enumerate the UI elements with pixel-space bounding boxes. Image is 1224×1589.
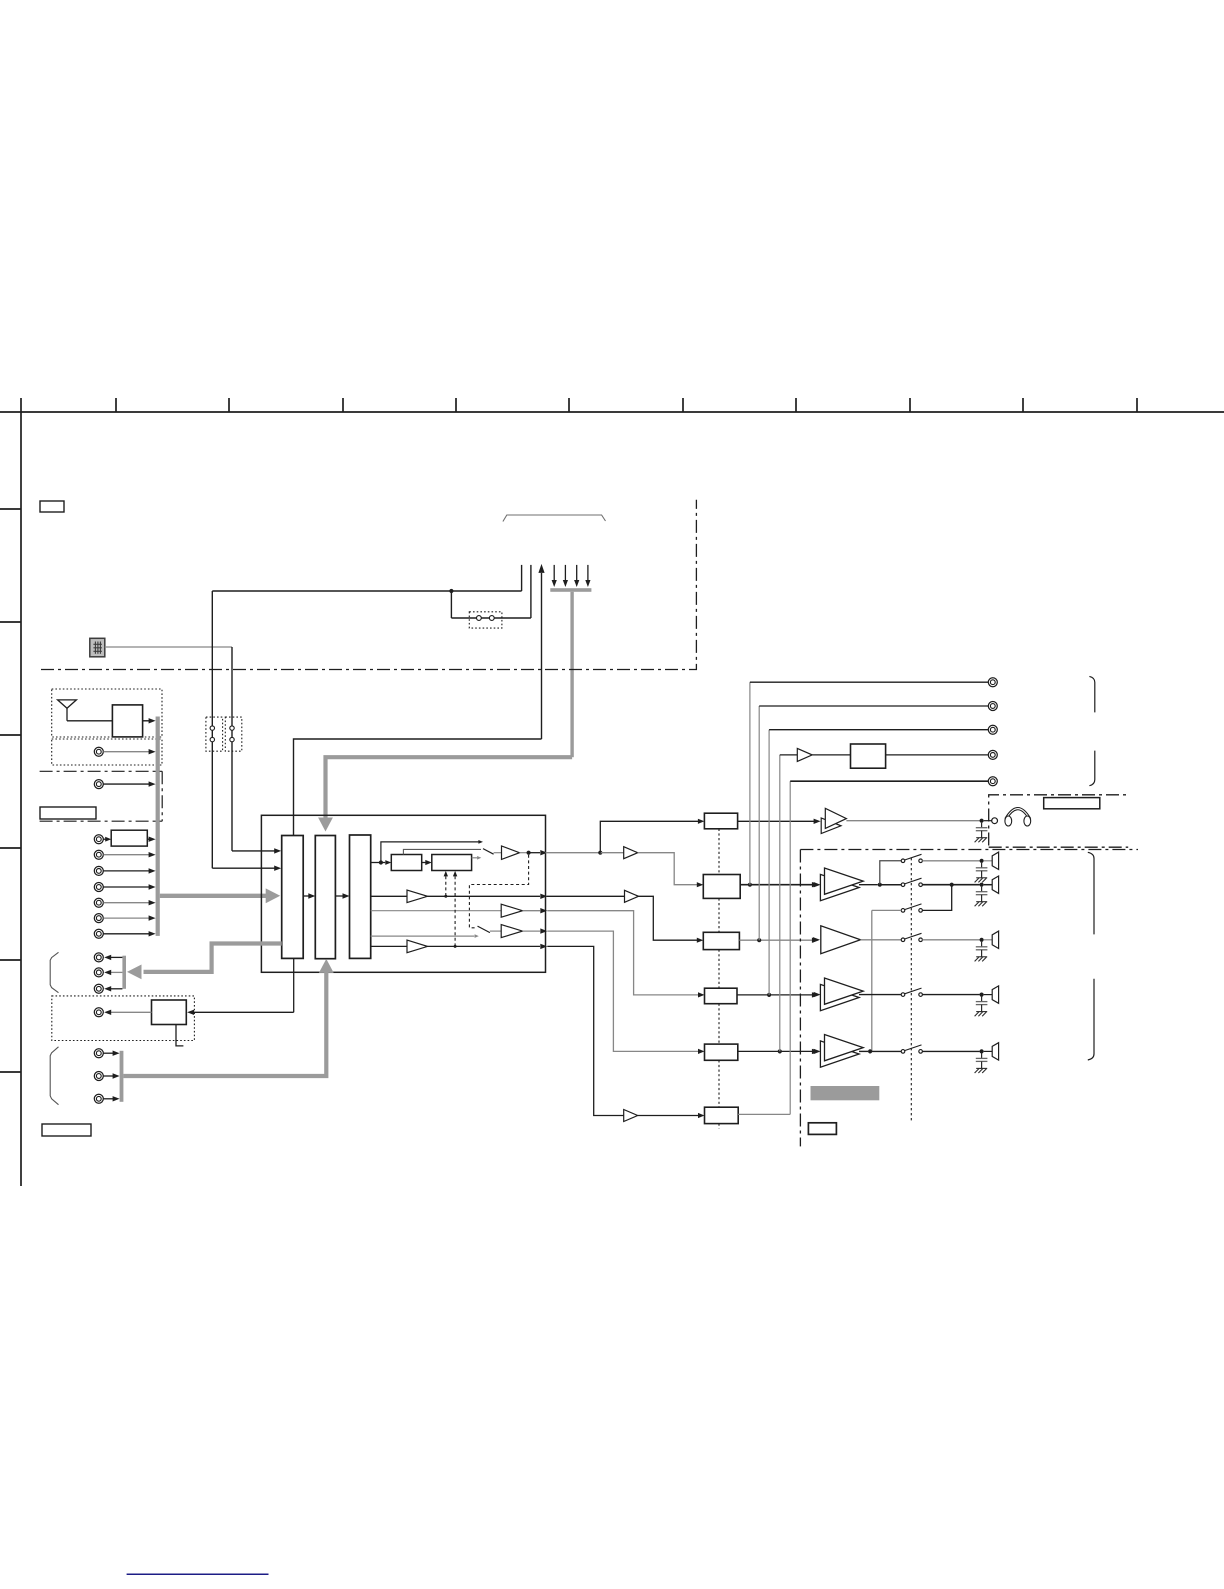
wire digital riser 2: [530, 565, 532, 618]
speaker switch F: [901, 1045, 922, 1053]
riser line-out 1: [749, 682, 751, 885]
speaker switch C: [901, 904, 922, 912]
label box (top left): [40, 501, 64, 512]
label box bottom left: [42, 1124, 91, 1136]
wire node to filter1: [600, 819, 704, 853]
wire tuner to bus: [143, 718, 156, 723]
wire amp center to switch: [861, 939, 902, 941]
wire net C: [922, 885, 951, 911]
wire rect1-top net: [294, 739, 542, 836]
eq2 out stub: [472, 856, 482, 860]
rec switch box B: [225, 717, 242, 751]
brace rec group: [50, 952, 58, 992]
phono zone dash-dot box: [40, 771, 163, 821]
arrow eq1-eq2: [422, 860, 432, 865]
wire row5: [371, 945, 407, 947]
bracket hat (digital group): [503, 515, 606, 522]
digital input down-arrows: [552, 565, 591, 587]
brace aux group: [50, 1047, 58, 1105]
rec-out bus bar: [122, 956, 126, 989]
wire switch row y618: [451, 617, 531, 619]
eq box 1: [391, 855, 421, 871]
wire filter3 out: [739, 938, 819, 943]
bracket speaker group: [1088, 852, 1094, 1060]
wire coax horizontal y591: [212, 590, 521, 592]
headphone icon: [1005, 808, 1031, 827]
wire row2: [371, 895, 407, 897]
amp row2 small: [407, 890, 428, 903]
wire filter1 to hp amp: [738, 819, 821, 824]
tuner box: [112, 705, 142, 737]
amp row5 out: [624, 1110, 638, 1122]
bracket line-out group: [1089, 676, 1094, 785]
DSP stage 2: [315, 836, 335, 959]
filter box 6: [705, 1107, 739, 1123]
wire switch B to speaker: [922, 883, 992, 887]
wire row1 to filter2: [638, 853, 704, 888]
wire net A to switch: [880, 861, 901, 885]
wire row3: [371, 910, 502, 912]
wire sub filter to jack: [886, 754, 989, 756]
capacitor + ground spk A: [975, 863, 988, 883]
RCA jacks line out: [988, 678, 997, 786]
filter box 1: [704, 813, 737, 829]
arrow stage2-stage3: [335, 893, 349, 898]
tuner dotted box: [52, 689, 162, 737]
wire lever to amp4: [490, 930, 501, 932]
wire line-out 3: [769, 729, 988, 731]
amp row4 small: [501, 925, 522, 938]
node amp out A: [859, 883, 882, 887]
riser line-out 3: [768, 730, 770, 995]
wire net A vertical: [212, 591, 281, 871]
dashed fb row2: [444, 871, 448, 898]
amp front L: [814, 978, 864, 1011]
speaker switch E: [901, 988, 922, 996]
DSP stage 1: [282, 836, 304, 959]
input selector bus (grey): [156, 717, 160, 936]
grey selector-out arrow to DSP: [160, 888, 280, 903]
speaker surround L: [992, 852, 998, 869]
wire digital riser 1: [521, 565, 523, 591]
antenna: [58, 700, 113, 721]
wire filter2 out: [740, 882, 819, 887]
aux bus bar: [120, 1051, 124, 1102]
speaker surround R: [992, 876, 998, 893]
row4 exit arrow: [523, 928, 548, 933]
dashed control path: [469, 855, 528, 928]
eq box 2: [432, 855, 472, 871]
optical switch contacts: [477, 616, 495, 621]
wire amp front L to switch: [859, 994, 901, 996]
amp subwoofer out: [797, 748, 812, 761]
selector lever row1: [483, 849, 494, 855]
DSP outer box: [261, 815, 545, 972]
rec switch box A: [206, 717, 223, 751]
headphone zone dash-dot: [989, 795, 1128, 847]
remote sensor: [90, 638, 105, 657]
wire row4 to filter5: [547, 931, 704, 1054]
label box (left): [40, 807, 96, 819]
control box stub: [176, 1025, 183, 1046]
RCA jacks aux in: [94, 1049, 119, 1104]
wire net B to switch: [880, 884, 901, 886]
speaker switch A: [901, 854, 922, 862]
RCA jack phono: [94, 780, 155, 789]
RCA jack in1 + head-amp box: [94, 830, 155, 846]
zone boundary dash-dot (digital): [41, 500, 696, 670]
riser line-out 5: [789, 781, 791, 1114]
row1 exit arrow: [529, 850, 548, 855]
wire row2 to filter3: [547, 896, 704, 943]
wire line-out 1: [750, 681, 988, 683]
amp row3 small: [501, 904, 522, 917]
speaker switch D: [901, 933, 922, 941]
wire switch D to speaker: [922, 938, 992, 942]
control dotted box: [52, 996, 195, 1041]
wire row5 to filter6: [547, 946, 623, 1115]
amp front R: [814, 1035, 864, 1068]
label box speaker zone: [808, 1123, 836, 1135]
wire row3 to filter4: [547, 911, 704, 998]
filter box 2: [703, 875, 740, 899]
capacitor + ground spk D: [975, 942, 988, 962]
bypass wire mid: [403, 849, 481, 854]
grey label bar: [811, 1086, 880, 1100]
row2 exit arrow: [428, 894, 548, 899]
wire line-out 5: [790, 780, 988, 782]
dotted speaker relay line: [910, 858, 912, 1121]
tuner audio dotted box: [52, 739, 162, 765]
page border top rule with ticks: [0, 398, 1224, 412]
wire switch E to speaker: [922, 993, 992, 997]
wire stage3 to eq: [371, 860, 392, 865]
wire filter4 out: [737, 992, 819, 997]
wire filter5 out: [738, 1049, 819, 1054]
amp center: [813, 926, 861, 954]
amp headphone: [821, 808, 846, 833]
wire digital out up-arrow: [538, 564, 544, 739]
wire switch A to speaker: [922, 859, 992, 863]
DIR bus grey tee: [550, 588, 591, 757]
wire sensor to net B: [105, 646, 232, 648]
riser line-out 2: [758, 706, 760, 940]
wire control to DSP: [187, 958, 294, 1015]
wire lever to amp1: [494, 852, 502, 854]
DSP stage 3: [350, 835, 371, 958]
arrow stage1-stage2: [303, 893, 315, 898]
row5 exit arrow: [428, 944, 548, 949]
wire row1 to node: [546, 851, 624, 855]
label box headphone: [1044, 798, 1100, 809]
rec switch contacts B: [230, 726, 234, 742]
speaker center: [992, 931, 998, 948]
riser line-out 4: [779, 755, 781, 1052]
selector lever row4: [478, 926, 490, 933]
wire line-out 2: [759, 705, 988, 707]
capacitor + ground spk F: [975, 1053, 988, 1073]
speaker switch B: [901, 878, 922, 886]
amp main L small: [502, 846, 520, 859]
capacitor + ground spk E: [975, 997, 988, 1017]
wire net B vertical: [232, 647, 281, 854]
optical switch box: [469, 612, 502, 628]
subwoofer filter box: [851, 744, 886, 768]
footer rule (navy): [127, 1573, 269, 1575]
wire stage3 row4 alt: [371, 934, 479, 938]
grey aux wire to DSP: [123, 959, 333, 1076]
node coax junction: [449, 589, 453, 593]
rec switch contacts A: [210, 726, 214, 742]
dotted chain filter boxes: [718, 829, 720, 1129]
page border left rule with ticks: [0, 412, 21, 1186]
RCA jacks rec out: [94, 953, 122, 993]
wire amp to sub filter: [812, 754, 850, 756]
wire filter6 out: [738, 1113, 790, 1115]
amp row5 small: [407, 940, 428, 953]
wire switch C to amp4 riser: [872, 910, 901, 1051]
filter box 4: [705, 988, 738, 1004]
grey rec-out wire: [127, 944, 282, 980]
wire amp to filter6: [638, 1113, 705, 1118]
speaker zone dash-dot: [800, 850, 1138, 1147]
amp row2 out: [625, 890, 639, 902]
grey wire tee to DSP: [318, 757, 572, 831]
wire amp1 to node: [520, 851, 531, 855]
dashed fb row5: [453, 871, 457, 948]
speaker front L: [992, 986, 998, 1003]
capacitor + ground hp: [975, 823, 988, 843]
wire hp amp to jack: [846, 818, 997, 824]
wire coax drop to switch: [450, 591, 452, 618]
RCA jack tuner audio: [94, 747, 155, 756]
amp row1 out: [624, 847, 638, 859]
filter box 3: [703, 932, 739, 949]
speaker front R: [992, 1043, 998, 1060]
bypass wire top: [381, 840, 483, 863]
control box: [152, 1000, 187, 1025]
wire riser4 to sub amp: [780, 754, 798, 756]
filter box 5: [705, 1044, 738, 1060]
row3 exit arrow: [523, 908, 548, 913]
RCA jacks inputs 2-7: [94, 850, 155, 938]
node amp front R out: [859, 1049, 901, 1053]
RCA jack control: [94, 1008, 151, 1017]
capacitor + ground spk B: [975, 887, 988, 907]
wire switch F to speaker: [922, 1049, 992, 1053]
amp surround (top): [814, 868, 864, 901]
